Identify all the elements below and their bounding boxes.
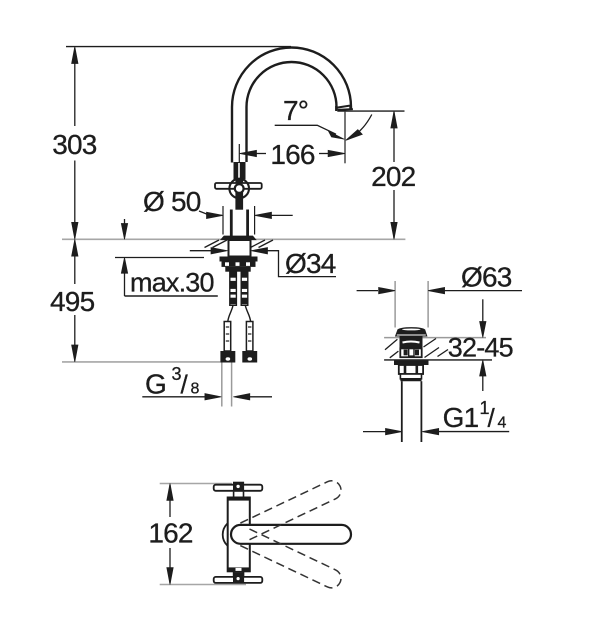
left supply stud bbox=[230, 272, 237, 306]
dimension 166 bbox=[239, 139, 345, 170]
dimension 303 bbox=[52, 47, 97, 240]
svg-text:166: 166 bbox=[270, 139, 315, 170]
D63 extension lines bbox=[394, 281, 396, 328]
right hose curve bbox=[245, 305, 250, 321]
right hose cap bbox=[242, 351, 257, 363]
swivel spout dashed upper bbox=[240, 478, 344, 541]
dimension max.30 bbox=[121, 219, 218, 298]
mounting nut row B bbox=[222, 262, 256, 267]
shank through counter bbox=[229, 240, 251, 257]
spout gooseneck outer bbox=[232, 48, 351, 163]
waste flange bbox=[394, 360, 429, 365]
outlet vertical extension line bbox=[344, 112, 346, 164]
counter band top line (gray) bbox=[384, 337, 486, 339]
svg-text:303: 303 bbox=[52, 129, 97, 160]
spout outlet right wall bbox=[349, 105, 351, 110]
handle center stem bbox=[235, 179, 243, 210]
right braided hose end bbox=[246, 322, 253, 352]
svg-text:Ø34: Ø34 bbox=[285, 248, 336, 279]
body bottom band bbox=[228, 567, 250, 571]
top cross handle bar bbox=[214, 485, 263, 491]
svg-text:Ø 50: Ø 50 bbox=[143, 186, 201, 217]
bottom cross center block bbox=[233, 572, 244, 583]
162 extension line bottom (gray) bbox=[160, 584, 246, 586]
counter band bottom line bbox=[384, 359, 492, 361]
svg-text:G: G bbox=[145, 369, 166, 400]
connection pipe below cap (gray) bbox=[221, 363, 223, 407]
solid spout (top view) bbox=[231, 525, 351, 544]
dimension G 3/8 bbox=[142, 364, 272, 400]
counter line (gray) bbox=[62, 238, 405, 240]
faucet body walls bbox=[230, 210, 233, 237]
left braided hose end bbox=[224, 322, 231, 352]
bottom cross handle bar bbox=[214, 577, 263, 583]
counter hatching right of faucet bbox=[251, 240, 266, 248]
swivel spout dashed lower bbox=[240, 529, 344, 592]
band hatching left bbox=[385, 339, 397, 350]
handle upper stem bbox=[234, 162, 246, 179]
left hose cap bbox=[220, 351, 235, 363]
dimension D63 bbox=[357, 262, 522, 294]
handle hub bbox=[229, 179, 249, 199]
escutcheon circle (top view) bbox=[223, 519, 254, 550]
band hatching right bbox=[424, 339, 437, 348]
spout outlet inner face bbox=[337, 106, 350, 108]
escutcheon at counter bbox=[221, 236, 256, 240]
dimension G1 1/4 bbox=[363, 398, 509, 435]
waste tailpipe bbox=[401, 381, 403, 442]
waste plug cap band bbox=[395, 330, 427, 337]
max.30 lower reference line bbox=[115, 257, 204, 259]
svg-text:32-45: 32-45 bbox=[448, 333, 513, 363]
svg-text:162: 162 bbox=[148, 517, 193, 548]
top cross center block bbox=[233, 482, 244, 492]
svg-text:4: 4 bbox=[498, 414, 507, 431]
waste plug cap top ellipse bbox=[398, 327, 425, 332]
waste step bbox=[400, 374, 421, 379]
cross handle bar bbox=[215, 183, 262, 189]
dimension 162 bbox=[148, 484, 193, 585]
dimension 495 bbox=[50, 239, 95, 362]
svg-text:max.30: max.30 bbox=[130, 268, 214, 298]
svg-text:8: 8 bbox=[191, 380, 200, 397]
spout outlet outer face bbox=[337, 108, 353, 111]
body rectangle (top view) bbox=[228, 498, 250, 572]
hose end reference line (gray) bbox=[62, 361, 220, 363]
spout outlet left wall bbox=[335, 106, 337, 111]
mounting nut row A bbox=[220, 257, 258, 262]
waste step bottom thick bbox=[400, 379, 421, 381]
dimension D50 extension lines bbox=[222, 206, 224, 235]
top cross arm stems bbox=[233, 492, 235, 498]
svg-text:202: 202 bbox=[371, 161, 416, 192]
dimension 32-45 bbox=[448, 299, 513, 391]
right supply stud bbox=[241, 272, 248, 306]
reference line spout outlet (202 top) bbox=[337, 110, 404, 112]
dimension D50 arrows and leader bbox=[143, 186, 293, 219]
waste body lower with squares bbox=[400, 348, 421, 357]
waste body upper (dark) bbox=[400, 336, 423, 348]
svg-text:7°: 7° bbox=[283, 95, 308, 126]
waste castellated nut bbox=[399, 365, 423, 374]
svg-text:Ø63: Ø63 bbox=[461, 262, 512, 293]
spout gooseneck inner bbox=[247, 62, 337, 162]
mounting nut row C bbox=[225, 267, 250, 272]
162 extension line top (gray) bbox=[160, 483, 232, 485]
angle 7 degrees bbox=[275, 95, 372, 140]
dimension 202 bbox=[371, 111, 416, 239]
counter hatching left of faucet bbox=[213, 240, 228, 248]
svg-text:495: 495 bbox=[50, 286, 95, 317]
body top band bbox=[228, 497, 250, 500]
bottom cross arm stems bbox=[233, 571, 235, 577]
dimension D34 bbox=[190, 248, 336, 280]
left hose curve bbox=[228, 305, 233, 321]
reference line top (overall height 303) bbox=[66, 46, 291, 48]
svg-text:G1: G1 bbox=[443, 402, 479, 433]
